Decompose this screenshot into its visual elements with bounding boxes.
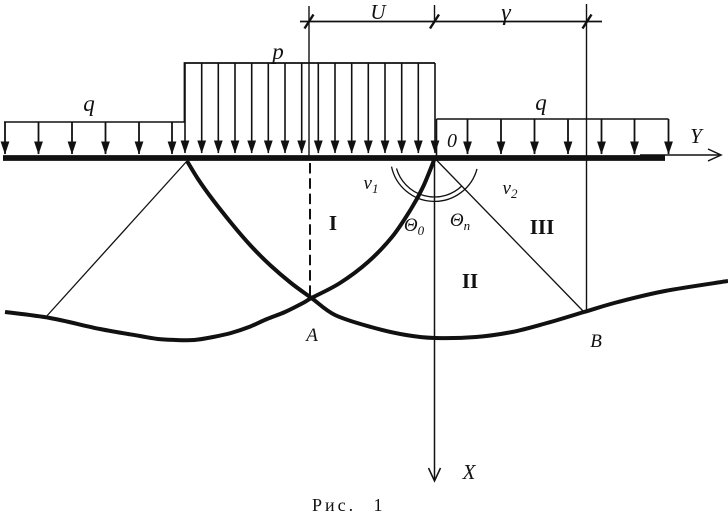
svg-text:1: 1 <box>374 495 383 515</box>
svg-text:Θ0: Θ0 <box>404 215 425 238</box>
dimension tick middle (x=434.5) <box>430 15 439 29</box>
dimension tick right (x=587) <box>583 15 592 29</box>
ground surface thick line <box>3 155 665 161</box>
right q load top line with right edge <box>437 118 669 120</box>
X axis <box>434 157 436 479</box>
svg-text:X: X <box>462 460 477 484</box>
svg-text:q: q <box>535 90 547 115</box>
svg-text:III: III <box>530 215 555 239</box>
dashed line from ground to A (x=310) <box>309 163 311 296</box>
extension line left (x=309) <box>308 6 310 156</box>
Y axis <box>640 154 719 156</box>
svg-text:II: II <box>462 269 478 293</box>
dimension line (top) <box>300 21 602 23</box>
svg-text:0: 0 <box>447 130 457 152</box>
left q load top line <box>4 121 185 123</box>
p load arrows <box>185 63 435 153</box>
svg-text:Рис.: Рис. <box>312 495 356 515</box>
left q arrows <box>5 122 172 154</box>
svg-text:γ: γ <box>501 0 511 26</box>
svg-text:Θn: Θn <box>450 210 470 233</box>
angle arc outer <box>392 167 478 202</box>
dimension tick left (x=309) <box>305 15 314 29</box>
right q arrows <box>468 119 669 154</box>
extension above middle tick <box>434 5 436 22</box>
extension line right (x=587) down to B <box>586 4 588 313</box>
thin radial line left: footing edge to lower curve <box>45 161 187 318</box>
right q left edge <box>436 119 438 156</box>
svg-text:p: p <box>270 39 284 64</box>
svg-text:Y: Y <box>690 124 704 148</box>
svg-text:A: A <box>304 325 318 346</box>
svg-text:B: B <box>590 331 602 352</box>
svg-text:U: U <box>370 0 387 24</box>
p load block outline <box>185 63 436 122</box>
slip curve 1: left footing edge through A to right edge <box>187 161 728 338</box>
svg-text:I: I <box>329 211 337 235</box>
thin radial line right: origin to B <box>435 158 585 312</box>
angle arc inner <box>397 168 462 197</box>
svg-text:q: q <box>83 91 95 116</box>
slip curve 2: origin through A to left edge <box>5 159 435 340</box>
svg-text:ν2: ν2 <box>503 178 518 201</box>
svg-text:ν1: ν1 <box>364 173 379 196</box>
